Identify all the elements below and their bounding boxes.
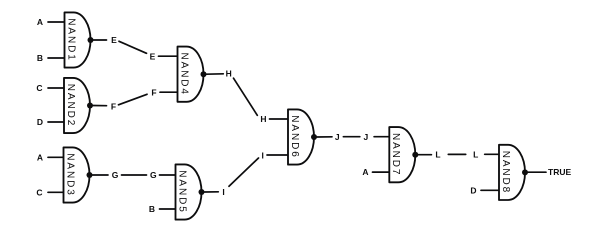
- svg-text:I: I: [222, 187, 224, 197]
- svg-text:C: C: [36, 187, 42, 197]
- svg-text:A: A: [37, 152, 43, 162]
- wire NAND3 output to node G: [93, 174, 109, 176]
- svg-text:L: L: [473, 150, 478, 160]
- svg-text:I: I: [262, 150, 264, 160]
- NAND gate NAND5: [176, 164, 202, 219]
- svg-text:G: G: [150, 170, 157, 180]
- junction dot NAND4 output: [201, 71, 207, 77]
- NAND gate NAND8: [499, 145, 525, 200]
- svg-text:NAND7: NAND7: [390, 133, 401, 176]
- wire L horizontal: [448, 153, 465, 155]
- NAND gate NAND4: [178, 47, 204, 102]
- wire B to NAND5 pin 2: [160, 208, 177, 210]
- junction dot NAND1 output: [88, 37, 94, 43]
- wire A to NAND3 pin 1: [48, 156, 65, 158]
- svg-text:F: F: [111, 101, 116, 111]
- svg-text:A: A: [362, 167, 368, 177]
- wire C to NAND3 pin 2: [48, 191, 65, 193]
- svg-text:NAND2: NAND2: [65, 84, 76, 127]
- wire H diagonal: [234, 78, 258, 115]
- svg-text:B: B: [37, 53, 43, 63]
- wire C to NAND2 pin 1: [48, 87, 65, 89]
- svg-text:NAND8: NAND8: [500, 151, 511, 194]
- NAND gate NAND3: [64, 147, 90, 202]
- wire I to NAND6 pin 2: [267, 154, 289, 156]
- svg-text:F: F: [151, 87, 156, 97]
- wire D to NAND8 pin 2: [481, 189, 500, 191]
- svg-text:J: J: [364, 132, 369, 142]
- wire A to NAND1 pin 1: [48, 21, 66, 23]
- wire NAND5 output to node I: [205, 191, 219, 193]
- NAND gate NAND6: [288, 109, 314, 164]
- NAND gate NAND1: [65, 12, 91, 67]
- wire E diagonal: [119, 41, 147, 53]
- wire NAND2 output to node F: [93, 105, 107, 107]
- wire NAND7 output to node L: [418, 154, 431, 156]
- wire J to NAND7 pin 1: [374, 136, 390, 138]
- svg-text:L: L: [435, 150, 440, 160]
- svg-text:H: H: [226, 69, 232, 79]
- junction dot NAND8 output: [522, 169, 528, 175]
- svg-text:E: E: [150, 52, 156, 62]
- svg-text:H: H: [260, 114, 266, 124]
- svg-text:NAND3: NAND3: [64, 153, 75, 196]
- wire H to NAND6 pin 1: [270, 118, 290, 120]
- wire L to NAND8 pin 1: [485, 153, 500, 155]
- wire D to NAND2 pin 2: [48, 121, 65, 123]
- svg-text:J: J: [335, 132, 340, 142]
- NAND gate NAND2: [64, 78, 90, 133]
- svg-text:A: A: [37, 17, 43, 27]
- wire NAND6 output to node J: [317, 136, 332, 138]
- svg-text:D: D: [37, 117, 43, 127]
- svg-text:TRUE: TRUE: [548, 167, 571, 177]
- wire G to NAND5 pin 1: [160, 174, 177, 176]
- junction dot NAND6 output: [311, 134, 317, 140]
- wire NAND1 output to node E: [94, 39, 107, 41]
- junction dot NAND7 output: [412, 152, 418, 158]
- wire E to NAND4 pin 1: [159, 55, 179, 57]
- wire J horizontal: [343, 136, 359, 138]
- junction dot NAND3 output: [87, 172, 93, 178]
- svg-text:NAND6: NAND6: [289, 115, 300, 158]
- wire F to NAND4 pin 2: [160, 91, 179, 93]
- svg-text:NAND4: NAND4: [178, 52, 189, 95]
- svg-text:C: C: [36, 83, 42, 93]
- svg-text:E: E: [111, 35, 117, 45]
- wire I diagonal: [229, 158, 259, 186]
- wire F diagonal: [119, 94, 148, 105]
- junction dot NAND5 output: [199, 189, 205, 195]
- svg-text:NAND5: NAND5: [176, 170, 187, 213]
- svg-text:G: G: [112, 170, 119, 180]
- wire A to NAND7 pin 2: [373, 171, 391, 173]
- svg-text:NAND1: NAND1: [65, 18, 76, 61]
- wire G horizontal: [122, 174, 147, 176]
- wire B to NAND1 pin 2: [48, 57, 66, 59]
- wire NAND4 output to node H: [207, 73, 224, 75]
- svg-text:B: B: [149, 204, 155, 214]
- wire NAND8 output to TRUE: [528, 171, 546, 173]
- NAND gate NAND7: [389, 127, 415, 182]
- svg-text:D: D: [470, 185, 476, 195]
- junction dot NAND2 output: [87, 103, 93, 109]
